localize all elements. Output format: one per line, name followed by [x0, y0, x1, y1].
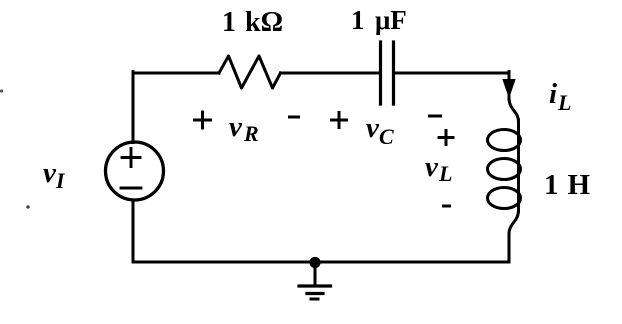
- svg-text:C: C: [379, 124, 394, 149]
- voltage source plus sign: [122, 149, 140, 167]
- svg-text:1: 1: [351, 5, 365, 35]
- label vC: [366, 112, 394, 149]
- svg-text:1: 1: [222, 7, 236, 38]
- wire capacitor to top-right corner: [395, 72, 509, 75]
- resistor R1 1 kOhm zigzag: [219, 56, 281, 88]
- wire left vertical upper segment: [132, 72, 135, 143]
- voltage source minus sign: [121, 187, 141, 190]
- wire right vertical upper segment: [508, 72, 511, 99]
- svg-text:v: v: [366, 112, 380, 144]
- minus sign of vL polarity: [442, 205, 451, 208]
- wire right vertical lower segment: [508, 233, 511, 262]
- label vI: [43, 157, 66, 193]
- ground bar 1: [299, 284, 331, 287]
- ground node junction dot: [309, 257, 320, 268]
- minus sign of vR polarity: [288, 116, 300, 119]
- capacitor C1 left plate: [379, 42, 382, 104]
- svg-text:i: i: [549, 78, 557, 110]
- label vL: [425, 151, 452, 186]
- label iL: [549, 78, 571, 115]
- label vR: [229, 111, 259, 146]
- svg-text:kΩ: kΩ: [245, 7, 283, 38]
- plus sign of vC polarity: [330, 111, 348, 129]
- plus sign of vR polarity: [193, 111, 212, 130]
- voltage source vI circle: [106, 142, 164, 200]
- wire S-curve out of inductor bottom: [509, 210, 519, 234]
- speck artifact lower left: [26, 205, 29, 208]
- svg-text:v: v: [43, 157, 57, 189]
- svg-text:I: I: [55, 168, 66, 193]
- wire between resistor and capacitor: [281, 72, 380, 75]
- inductor L1 loop 2: [488, 159, 521, 180]
- svg-text:1: 1: [544, 169, 559, 201]
- speck artifact left edge: [0, 89, 3, 92]
- svg-text:v: v: [425, 151, 439, 183]
- svg-text:μF: μF: [375, 5, 407, 35]
- capacitor C1 right plate: [392, 42, 395, 104]
- current arrow iL head: [503, 80, 515, 98]
- wire bottom horizontal: [133, 261, 509, 264]
- svg-text:L: L: [557, 90, 571, 115]
- wire top-left horizontal: [133, 72, 219, 75]
- ground stem: [314, 262, 317, 285]
- svg-text:v: v: [229, 111, 243, 143]
- plus sign of vL polarity: [438, 129, 455, 146]
- inductor L1 right spine: [517, 120, 520, 211]
- ground bar 2: [307, 292, 323, 295]
- ground bar 3: [311, 298, 318, 301]
- svg-text:L: L: [438, 161, 452, 186]
- wire left vertical lower segment: [132, 200, 135, 262]
- inductor L1 loop 1: [488, 130, 521, 151]
- svg-text:R: R: [243, 121, 259, 146]
- minus sign of vC polarity: [428, 115, 442, 118]
- inductor L1 loop 3: [488, 188, 521, 209]
- wire S-curve into inductor top: [509, 98, 519, 122]
- svg-text:H: H: [568, 169, 591, 201]
